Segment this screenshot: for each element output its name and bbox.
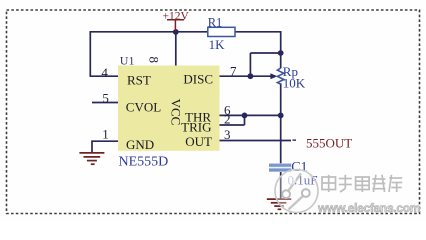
wire pin 4 stub — [90, 75, 119, 77]
wire right rail down to Rp top — [280, 31, 282, 68]
svg-text:10K: 10K — [283, 76, 306, 91]
junction dot pin2 jog on pin6 net — [242, 113, 248, 119]
svg-text:1: 1 — [102, 127, 109, 142]
wire capacitor bottom to ground — [280, 170, 282, 199]
wire pin 2 stub — [220, 124, 245, 126]
wiper arrowhead into Rp — [270, 73, 277, 79]
svg-text:8: 8 — [147, 56, 162, 63]
wire pin 7 to wiper arrow — [220, 75, 272, 77]
wire pin 6 to rail — [220, 114, 281, 116]
watermark logo small circle B — [302, 189, 310, 197]
wire R1 output to right rail corner — [235, 31, 282, 33]
watermark wash over capacitor value — [287, 173, 296, 184]
svg-text:GND: GND — [126, 137, 154, 152]
svg-text:TRIG: TRIG — [181, 119, 211, 134]
capacitor C1 top plate — [269, 163, 291, 167]
watermark logo diagonal stroke lower — [289, 196, 304, 210]
svg-text:www.elecfans.com: www.elecfans.com — [317, 201, 420, 215]
svg-text:2: 2 — [224, 111, 231, 126]
watermark logo diagonal stroke upper — [289, 174, 302, 191]
wire pin 8 VCC vertical — [175, 32, 177, 66]
ground symbol right — [267, 199, 292, 209]
svg-text:555OUT: 555OUT — [306, 136, 352, 151]
junction dot at +12V node — [173, 29, 179, 35]
junction dot pin6 rail — [278, 113, 284, 119]
svg-text:OUT: OUT — [185, 134, 212, 149]
watermark logo big circle — [275, 170, 318, 213]
watermark logo small circle A — [282, 190, 290, 198]
svg-text:4: 4 — [101, 65, 108, 80]
watermark chinese glyph blocks — [322, 175, 402, 192]
wire rail below Rp down to capacitor — [280, 83, 282, 165]
potentiometer Rp zigzag — [277, 68, 283, 84]
net label anchor tick on pin3 wire — [293, 139, 297, 141]
power +12V bar — [167, 19, 184, 21]
wire jog vertical down to pin7 line — [249, 53, 251, 76]
wire left vertical down to pin 4 — [89, 31, 91, 76]
capacitor C1 bottom plate — [269, 168, 291, 172]
op IC body U1 NE555D yellow box — [118, 66, 220, 151]
junction dot pin7 wiper — [248, 73, 254, 79]
svg-text:DISC: DISC — [183, 71, 213, 86]
svg-text:R1: R1 — [208, 15, 223, 29]
svg-text:U1: U1 — [120, 54, 135, 68]
wire pin 2 jog up to pin6 net — [244, 115, 246, 125]
svg-text:NE555D: NE555D — [119, 155, 169, 170]
svg-text:CVOL: CVOL — [126, 100, 161, 115]
wire pin 1 stub — [92, 140, 118, 142]
wire pin 1 down to ground — [91, 140, 93, 153]
svg-text:3: 3 — [224, 127, 231, 142]
svg-text:1K: 1K — [209, 37, 226, 52]
svg-text:+12V: +12V — [163, 10, 190, 22]
wire jog horizontal at y53 — [250, 52, 280, 54]
svg-text:RST: RST — [127, 73, 151, 88]
wire top horizontal from pin4 corner to R1 — [90, 31, 208, 33]
svg-text:7: 7 — [230, 63, 237, 78]
svg-text:5: 5 — [102, 90, 109, 105]
ground symbol left — [79, 153, 104, 164]
wire pin 5 stub — [92, 102, 118, 104]
wire pin 3 output — [220, 140, 292, 142]
power +12V stem — [174, 20, 176, 31]
resistor R1 body — [208, 27, 235, 36]
junction dot rail y53 — [278, 50, 284, 56]
